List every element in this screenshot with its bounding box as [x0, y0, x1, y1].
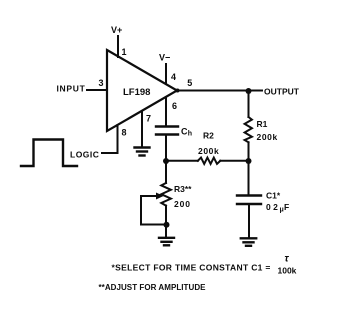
wire R2 to right rail [220, 160, 249, 162]
wire node C to ground [165, 225, 167, 238]
logic pulse waveform symbol [21, 140, 77, 167]
svg-text:V−: V− [159, 53, 170, 63]
svg-text:h: h [188, 131, 192, 138]
wire R3 bottom to node C [165, 206, 167, 225]
svg-text:OUTPUT: OUTPUT [264, 87, 300, 97]
capacitor C1 [237, 194, 261, 196]
svg-text:5: 5 [187, 78, 192, 88]
svg-text:R1: R1 [257, 119, 268, 129]
svg-text:INPUT: INPUT [57, 84, 86, 94]
svg-text:4: 4 [171, 72, 176, 82]
wire pin3 input [87, 89, 106, 91]
wire pin7 to ground [141, 111, 143, 147]
wire pin4 V- [165, 64, 167, 84]
svg-text:1: 1 [122, 47, 127, 57]
wire C1 to ground [248, 204, 250, 238]
svg-text:0 2: 0 2 [266, 202, 278, 212]
resistor R1 200k [245, 117, 252, 142]
wire pin8 logic [102, 125, 118, 153]
wire node A to R2 [166, 160, 198, 162]
node dot output [246, 88, 252, 94]
svg-text:100k: 100k [278, 266, 297, 276]
svg-text:200k: 200k [198, 146, 219, 156]
capacitor Ch [156, 125, 178, 127]
svg-text:R3**: R3** [174, 184, 192, 194]
wire node B down to C1 [248, 161, 250, 195]
ground under R3 [159, 238, 174, 246]
svg-text:200: 200 [174, 199, 191, 209]
svg-text:8: 8 [122, 128, 127, 138]
ground under C1 [241, 238, 256, 246]
R3 wiper arrow [141, 195, 158, 197]
svg-text:3: 3 [99, 78, 104, 88]
potentiometer R3 200 [161, 183, 171, 206]
svg-text:**ADJUST FOR AMPLITUDE: **ADJUST FOR AMPLITUDE [99, 283, 207, 292]
wire output node down to R1 [248, 91, 250, 117]
ground under pin7 [135, 148, 150, 156]
node dot A (Ch/R2/R3) [163, 158, 169, 164]
svg-text:R2: R2 [203, 131, 214, 141]
svg-text:C1*: C1* [266, 191, 281, 201]
svg-text:7: 7 [146, 114, 151, 124]
svg-text:LF198: LF198 [123, 87, 150, 98]
wire pin1 V+ [117, 36, 119, 57]
svg-text:LOGIC: LOGIC [70, 150, 99, 160]
wire wiper to node C [141, 196, 166, 225]
wire pin6 to hold capacitor [165, 97, 167, 126]
svg-text:6: 6 [172, 101, 177, 111]
resistor R2 200k [198, 158, 221, 164]
svg-text:V+: V+ [111, 25, 122, 35]
op-amp U1 LF198 triangle [107, 50, 177, 131]
svg-text:F: F [284, 202, 289, 212]
svg-text:*SELECT FOR TIME CONSTANT C1 =: *SELECT FOR TIME CONSTANT C1 = [112, 263, 271, 273]
wire Ch bottom to node A [165, 135, 167, 162]
wire pin5 output [177, 90, 262, 92]
svg-text:200k: 200k [257, 132, 278, 142]
wire node A down to R3 [165, 161, 167, 183]
node dot C (R3/wiper) [164, 222, 170, 228]
wire R1 to node B [248, 142, 250, 161]
node dot B (R1/R2/C1) [246, 158, 252, 164]
